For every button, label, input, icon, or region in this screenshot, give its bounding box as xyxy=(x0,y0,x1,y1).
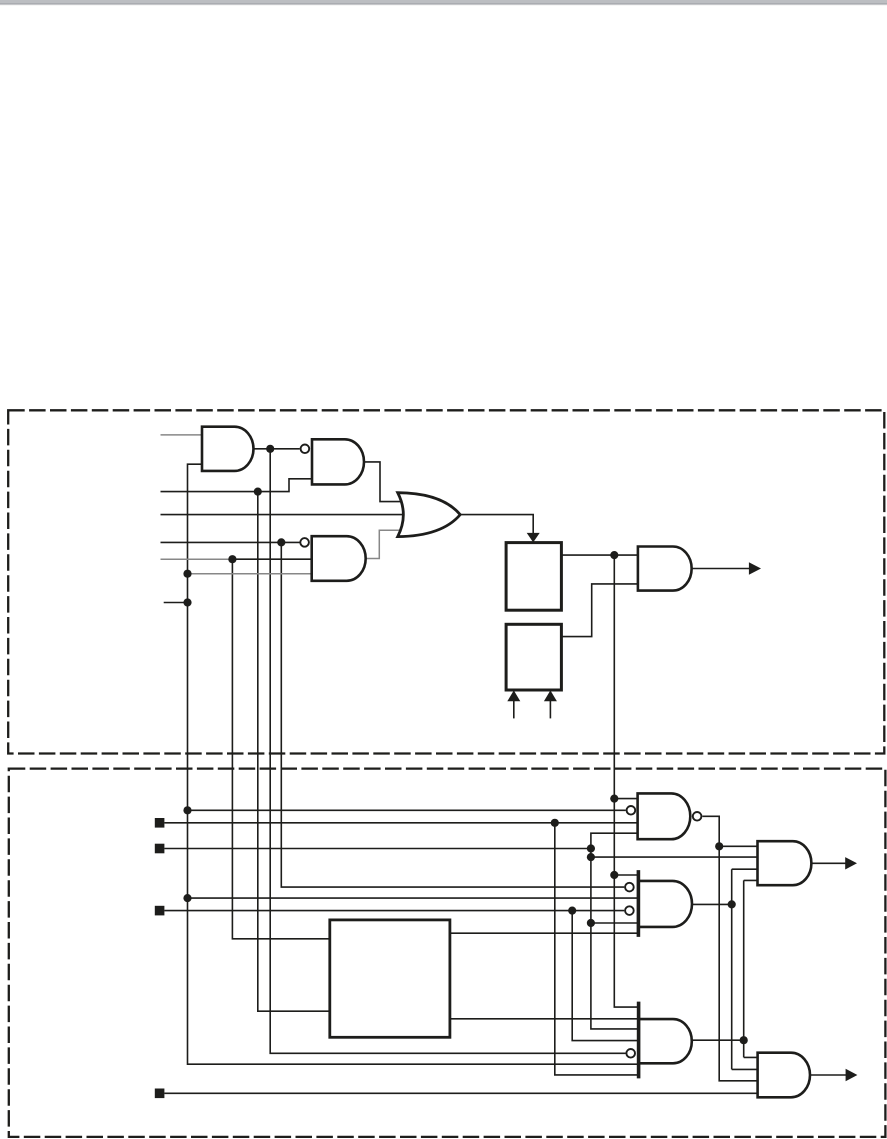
node N4 junction dot (U3 in2 line) xyxy=(228,555,236,563)
node junction dot (T1 line branch) xyxy=(551,819,559,827)
wire node N2 vertical branch to big register input 2 xyxy=(258,492,330,1012)
wire FF2 clock stub 2 xyxy=(549,701,551,718)
and-gate C (6-input with bar) xyxy=(638,881,692,927)
input bar of gate C xyxy=(637,870,641,937)
wire U1 input 1 (gray stub) xyxy=(161,434,203,436)
node junction dot (T2 line end) xyxy=(587,844,595,852)
node junction dot (C in3 feed) xyxy=(183,894,191,902)
wire D output net to B input 4 and E input 1 xyxy=(692,880,758,1057)
wire big register output 2 to D input 2 xyxy=(450,1018,639,1020)
and-gate U4 xyxy=(638,547,692,591)
inverter bubble U2 input 1 xyxy=(301,445,310,454)
wire input terminal T2 line xyxy=(164,848,591,850)
wire U3 input 2 feed (gray left part) xyxy=(161,558,233,560)
arrowhead E output (right) xyxy=(846,1069,858,1081)
wire T3 vertical branch to D input 4 xyxy=(572,911,638,1041)
inverter bubble A input 2 xyxy=(627,806,636,815)
inverter bubble C input 2 xyxy=(625,883,634,892)
dashed box: upper control-logic block xyxy=(8,410,884,753)
dashed box: lower decode-logic block xyxy=(9,769,886,1137)
wire branch to B input 1 xyxy=(719,845,757,847)
wire A output down to B input 1 and E input 3 xyxy=(702,816,757,1081)
node N1 junction dot (U1 output) xyxy=(266,445,274,453)
wire U4 output xyxy=(692,568,750,570)
node junction dot (C output branch) xyxy=(728,900,736,908)
arrowhead FF2 clock stub 1 (up) xyxy=(507,690,520,701)
wire B output xyxy=(811,862,846,864)
node N2 junction dot (U2 in2 line) xyxy=(254,488,262,496)
wire U1 output to U2 bubble (node N1) xyxy=(254,448,300,450)
wire C input 3 feed line xyxy=(188,897,639,899)
wire U3 input 3 (gray) xyxy=(188,573,312,575)
node junction dot (D output branch) xyxy=(740,1036,748,1044)
and-gate E (4-input) xyxy=(758,1053,810,1098)
arrowhead B output (right) xyxy=(845,857,857,869)
and-gate U2 (inverted input 1) xyxy=(312,439,364,484)
wire U1 input 2 / long vertical net to D input 6 xyxy=(188,464,639,1064)
wire A input 1 branch xyxy=(614,798,637,800)
input terminal T1 square xyxy=(155,818,165,828)
node junction dot (C in1 branch) xyxy=(610,871,618,879)
and-gate B (4-input) xyxy=(758,841,812,885)
and-gate D (7-input with bar) xyxy=(639,1019,692,1063)
input terminal T2 square xyxy=(155,844,165,854)
node junction dot (B in2 branch) xyxy=(587,853,595,861)
wire C output net to B input 3 and E input 2 xyxy=(692,869,758,1069)
wire OR1 output to register FF1 clock arrow xyxy=(460,515,533,534)
wire U3 input 2 (black right part) xyxy=(232,558,311,560)
nand-gate A (4-input, output bubble) xyxy=(638,793,691,839)
node junction dot (left stub on vertical net) xyxy=(183,598,191,606)
node junction dot (A in2 feed) xyxy=(183,806,191,814)
node junction dot (B in1 branch) xyxy=(715,842,723,850)
register FF1 xyxy=(506,543,561,611)
arrowhead FF2 clock stub 2 (up) xyxy=(544,690,557,701)
wire A input 2 feed line xyxy=(188,809,626,811)
node junction dot (T3 line branch) xyxy=(568,907,576,915)
input bar of gate D xyxy=(637,1002,641,1079)
wire left stub into node on vertical net xyxy=(164,602,188,604)
node N5 junction dot (FF1 output) xyxy=(610,551,618,559)
wire C input 5 branch xyxy=(591,922,639,924)
node N3 junction dot (U3 in1 line) xyxy=(277,538,285,546)
wire big register output 1 to C input 6 xyxy=(450,932,639,934)
wire U2 output to OR1 top input xyxy=(364,462,404,502)
inverter bubble U3 input 1 xyxy=(300,538,309,547)
wire node N4 vertical branch to big register input 1 xyxy=(232,559,330,939)
wire input terminal T3 line to C input 4 bubble xyxy=(164,910,624,912)
wire U2 input 2 feed line with step xyxy=(161,479,313,492)
node junction dot (U3 in3 on vertical net) xyxy=(183,570,191,578)
wire FF2 output up to U4 input 2 xyxy=(561,584,638,637)
wire E output xyxy=(810,1074,846,1076)
wire node N3 vertical branch to C input 2 bubble xyxy=(281,542,624,887)
register FF2 xyxy=(506,624,561,690)
node junction dot (A in1 branch) xyxy=(610,795,618,803)
wire U3 output to OR1 bottom input (gray) xyxy=(366,530,404,558)
big decoder register block xyxy=(330,920,450,1037)
inverter bubble A output xyxy=(693,812,702,821)
wire node N5 vertical to D input 1 xyxy=(614,555,638,1007)
inverter bubble D input 5 xyxy=(626,1049,635,1058)
wire U3 input 1 feed line xyxy=(161,541,300,543)
arrowhead U4 output (right) xyxy=(749,562,761,574)
wire input terminal T4 line to E input 4 xyxy=(164,1092,757,1094)
arrowhead into FF1 clock (down) xyxy=(527,533,540,543)
wire branch to B input 2 xyxy=(591,856,758,858)
wire T2 vertical net (A in4 / D in3) xyxy=(591,833,639,1029)
or-gate OR1 xyxy=(398,493,461,537)
wire FF2 clock stub 1 xyxy=(513,701,515,718)
input terminal T3 square xyxy=(155,906,165,916)
wire node N1 vertical branch to D input 5 bubble xyxy=(270,449,625,1054)
inverter bubble C input 4 xyxy=(625,906,634,915)
input terminal T4 square xyxy=(155,1089,165,1099)
wire input terminal T1 line to A input 3 xyxy=(164,822,637,824)
wire FF1 output to U4 input 1 (node N5) xyxy=(561,554,638,556)
wire node branch T1 vertical to D input 7 xyxy=(555,823,639,1075)
and-gate U1 xyxy=(202,427,253,471)
and-gate U3 (inverted input 1) xyxy=(312,536,366,581)
wire OR1 middle input line xyxy=(161,514,406,516)
node junction dot (C in5 branch) xyxy=(587,919,595,927)
wire C input 1 branch xyxy=(614,874,638,876)
